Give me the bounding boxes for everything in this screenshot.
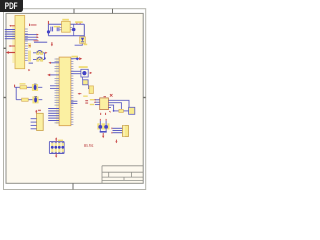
- U1 right wire row 2: [25, 36, 38, 38]
- U2 pin number smear column: [56, 58, 59, 124]
- red tick U3 left 1: [94, 99, 96, 101]
- wire below diode: [75, 44, 83, 45]
- label smear above top right wire: [72, 56, 79, 58]
- resistor R2: [22, 98, 29, 101]
- ground arrow below caps: [102, 133, 104, 138]
- U2 left wire pin 13: [50, 87, 59, 89]
- border zone tick top 2: [112, 9, 114, 14]
- red tick power input: [47, 21, 49, 24]
- port arrow left of C4: [78, 93, 82, 95]
- red pin tick 1 on top wire: [76, 23, 78, 24]
- red up arrow above J4: [35, 110, 37, 114]
- title block: [102, 166, 143, 183]
- ground arrow below J3 wires: [115, 140, 117, 144]
- LED row 2 wire: [16, 99, 42, 101]
- capacitor C5: [98, 121, 102, 131]
- U3 left wires: [95, 100, 100, 105]
- red tick below U1: [28, 69, 30, 71]
- label smear left of U3 a: [90, 99, 94, 100]
- wire joining jumpers: [44, 53, 46, 60]
- value smear right of C6: [107, 123, 109, 129]
- power port down arrow: [51, 42, 53, 46]
- border zone tick top 1: [73, 9, 75, 14]
- U3 right wire C: [108, 105, 113, 111]
- border zone tick left 1: [4, 47, 7, 49]
- LED row 1 wire: [15, 86, 43, 88]
- jumper J1: [33, 50, 45, 54]
- IC U3: [100, 98, 109, 110]
- vertical link wire: [15, 87, 17, 99]
- port arrow U1 pin B: [9, 45, 16, 47]
- U2 left pin stubs: [55, 59, 60, 123]
- U3 right wire A: [108, 100, 129, 107]
- diode D1: [80, 37, 88, 45]
- port arrow right of jumpers top: [45, 52, 47, 54]
- red tick U3 left 2: [94, 101, 96, 103]
- value smear between C5 C6: [102, 123, 106, 129]
- power arrow above S1: [55, 137, 57, 141]
- capacitor C3: [72, 24, 76, 36]
- regulator U5: [62, 21, 71, 32]
- red tick conn right 2: [111, 132, 113, 134]
- crystal body Y1b: [83, 80, 88, 85]
- cap pair join bar: [100, 131, 107, 133]
- port arrow U1 right 2: [37, 36, 39, 38]
- port arrow U1 right 1: [37, 34, 39, 36]
- red tick conn right 1: [111, 128, 113, 130]
- sheet outer border: [4, 9, 146, 190]
- sheet background: [0, 0, 149, 198]
- antenna component: [129, 107, 135, 114]
- port arrow right of crystal: [90, 72, 93, 74]
- LED D3: [32, 96, 38, 103]
- red net label near badge: [31, 24, 37, 26]
- blue net anchor top left: [44, 58, 46, 60]
- U2 left wire pin 2: [51, 62, 59, 64]
- U2 right pin stubs: [71, 59, 74, 124]
- crystal circle: [82, 71, 86, 75]
- wire top of jumper area: [34, 41, 47, 43]
- port arrow right of U2 top: [79, 57, 82, 60]
- U2 left wire bundle: [48, 109, 59, 121]
- J4 left wires: [31, 119, 37, 129]
- port arrow U1 pin C: [6, 51, 15, 54]
- ground arrow below S1: [55, 154, 57, 158]
- DIP switch S1: [49, 141, 64, 153]
- U1 left wire bundle: [5, 30, 15, 39]
- U3 right wire B: [108, 103, 121, 110]
- polarized cap marker C1: [47, 30, 50, 33]
- label smear left of U3 b: [90, 104, 94, 105]
- wire from crystal to cap: [87, 85, 90, 89]
- value label smear 3: [75, 21, 83, 23]
- red label smear above J4: [38, 110, 41, 111]
- label smear right of U1 bottom: [29, 62, 33, 64]
- red label smear: [34, 40, 39, 41]
- net label smear right of U1 upper: [28, 43, 31, 48]
- cap pair red tick 2: [105, 119, 107, 121]
- capacitor C6: [104, 121, 108, 131]
- border zone tick right: [143, 97, 146, 99]
- U1 pin number smear column: [12, 25, 15, 63]
- svg-text:M5.Rst: M5.Rst: [84, 143, 94, 148]
- label smear above crystal: [79, 66, 88, 68]
- net label smear right of U1: [28, 51, 31, 62]
- connector J4: [37, 113, 44, 130]
- capacitor C4: [89, 86, 93, 94]
- jumper J2: [33, 57, 45, 61]
- crystal box Y1: [81, 69, 88, 77]
- sheet inner border: [6, 13, 143, 183]
- LED D2: [32, 84, 38, 91]
- value smear left of C5: [97, 123, 99, 129]
- red net label smear right of U2: [85, 100, 88, 101]
- PDF badge: [0, 0, 23, 12]
- regulator pin stubs: [59, 27, 72, 29]
- capacitor C1: [51, 27, 53, 32]
- border zone tick left 2: [4, 97, 7, 99]
- value label smear 1: [54, 26, 60, 28]
- junction dot: [113, 110, 115, 112]
- wire below crystal: [81, 77, 83, 80]
- regulator circuit wires: [48, 24, 84, 37]
- red tick below badge: [29, 24, 31, 26]
- U1 right wire row 3: [25, 39, 38, 41]
- red pin tick 2 on top wire: [79, 23, 81, 24]
- U3 right stub D: [108, 107, 111, 109]
- IC U1: [15, 16, 25, 69]
- crystal wires: [71, 71, 81, 73]
- red pin tick below U3 b: [105, 113, 107, 115]
- label smear above R1: [20, 83, 26, 84]
- capacitor C2: [57, 27, 59, 31]
- red label smear above U3: [104, 96, 107, 97]
- U2 top right wire: [71, 58, 79, 60]
- port arrow U2 left a: [48, 62, 51, 64]
- U2 left wire pin 8: [50, 74, 59, 76]
- connector J3: [123, 126, 129, 137]
- red pin tick below U3 a: [100, 113, 102, 115]
- yellow label smear above U3: [83, 96, 88, 97]
- connector J3 inner line: [123, 126, 125, 137]
- right connector wires: [113, 128, 123, 132]
- red dash below U3: [109, 111, 110, 112]
- U2 left wire pin 12: [50, 85, 59, 87]
- MCU U2: [59, 57, 71, 126]
- port arrow left of jumpers: [28, 45, 30, 47]
- cap pair red tick 1: [99, 119, 101, 121]
- red net label smear right of U2 b: [85, 102, 88, 103]
- resistor R3: [119, 109, 123, 112]
- junction diamond: [76, 57, 79, 60]
- svg-text:PDF: PDF: [5, 1, 18, 11]
- value label smear 2: [62, 19, 69, 21]
- U1 right pin stubs: [25, 29, 28, 61]
- port arrow U1 pin A: [9, 25, 15, 27]
- red asterisk near U3: [110, 94, 113, 97]
- port arrow U2 left b: [47, 74, 50, 77]
- U1 right wire row 1: [25, 34, 38, 36]
- border zone tick bottom: [72, 183, 74, 189]
- resistor R1: [20, 86, 27, 89]
- U2 lower right wires: [71, 101, 78, 103]
- label smear above S1: [58, 140, 63, 142]
- red tick LED row 1: [14, 85, 16, 88]
- matching network wire: [114, 110, 129, 112]
